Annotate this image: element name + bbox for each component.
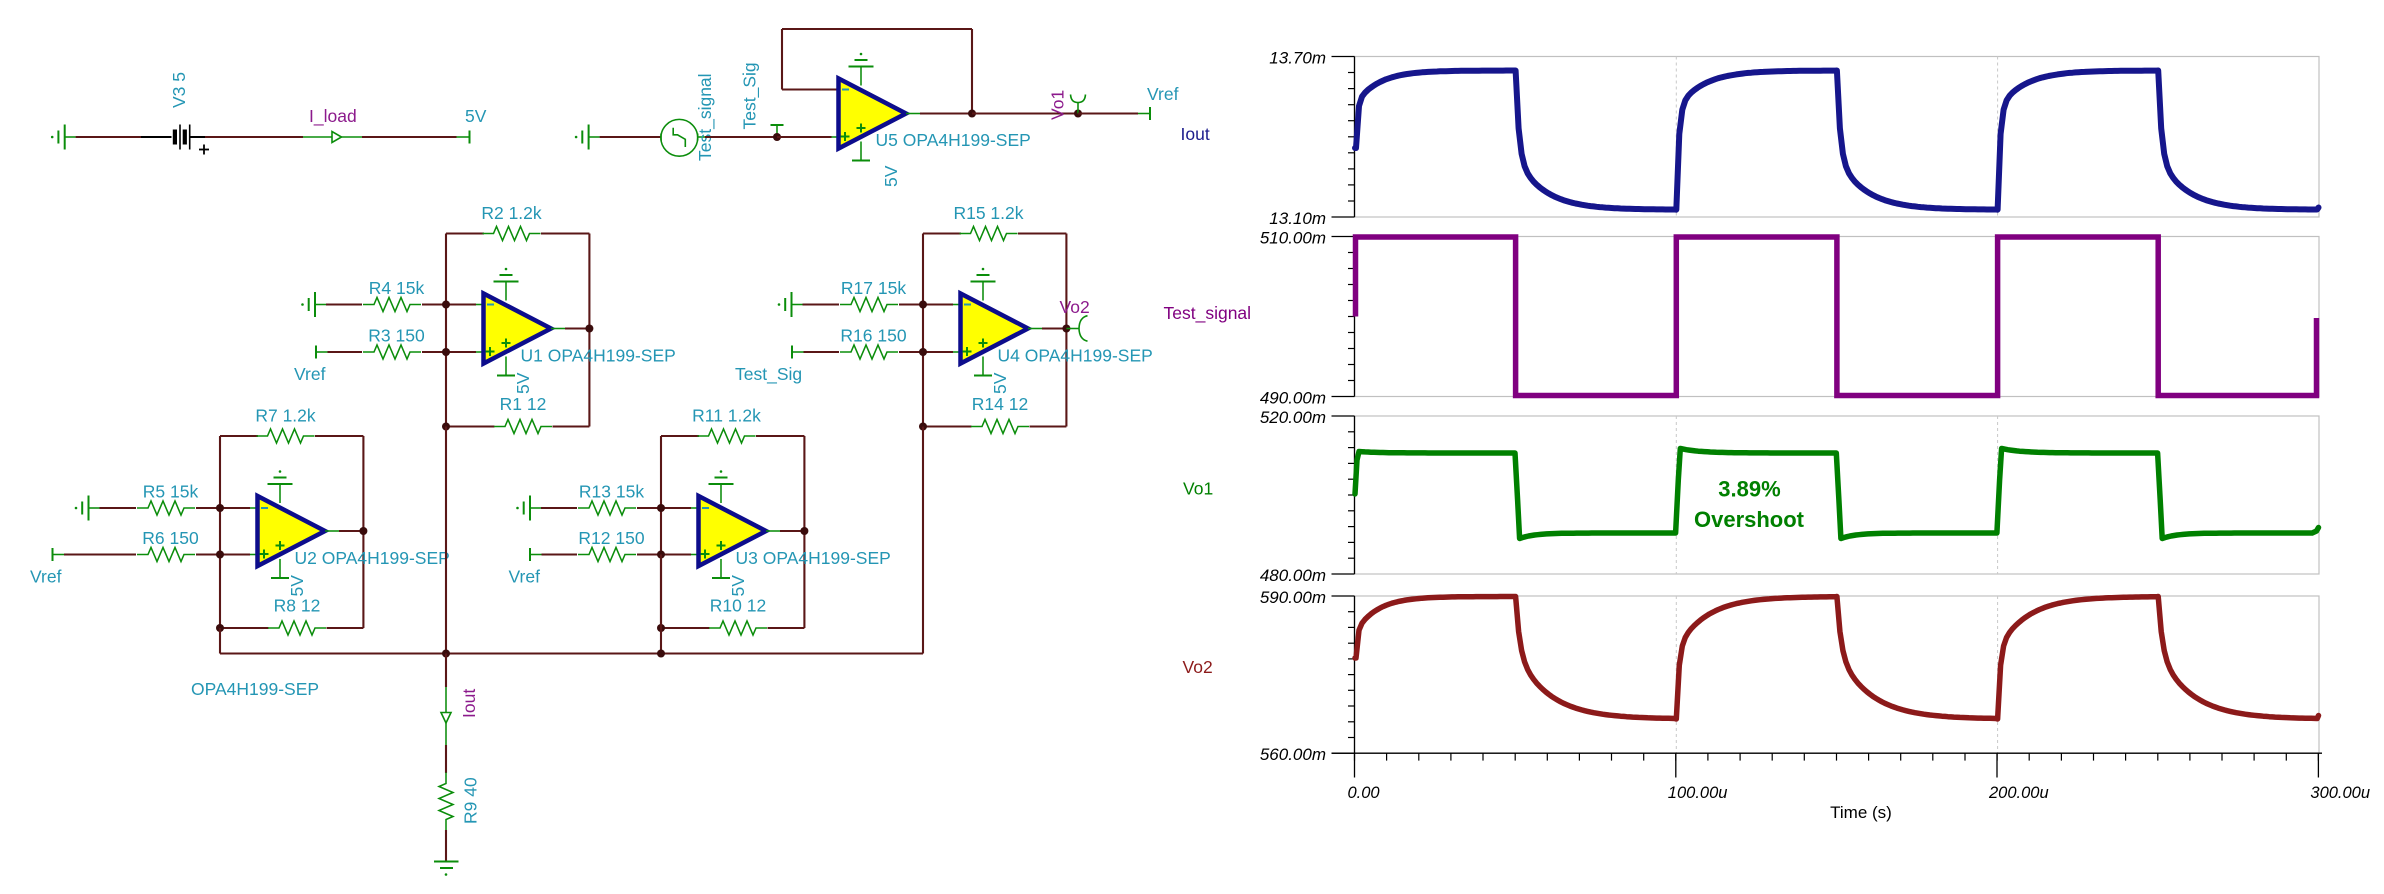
- wire U5 feedback: [782, 29, 972, 114]
- terminal Vref: [53, 548, 65, 561]
- svg-text:Vref: Vref: [509, 567, 541, 587]
- svg-text:5V: 5V: [990, 372, 1010, 394]
- wire U2 column down: [219, 628, 221, 654]
- svg-text:R9 40: R9 40: [461, 777, 481, 824]
- node non-inverting input: [216, 551, 257, 559]
- ground: [301, 292, 326, 317]
- node p3 frame: [1355, 416, 2320, 574]
- svg-text:U3 OPA4H199-SEP: U3 OPA4H199-SEP: [736, 548, 891, 568]
- svg-text:Iout: Iout: [459, 689, 479, 718]
- svg-text:100.00u: 100.00u: [1668, 784, 1728, 802]
- node non-inverting input: [919, 348, 960, 356]
- svg-text:Vref: Vref: [1147, 84, 1179, 104]
- terminal 5V: [457, 106, 487, 144]
- resistor R11: [692, 406, 761, 444]
- power 5V supply: [497, 357, 533, 395]
- svg-text:R6 150: R6 150: [142, 528, 199, 548]
- ground: [434, 862, 459, 876]
- wire output: [906, 113, 972, 115]
- wire U3 feedback loop: [661, 436, 804, 628]
- node x-axis: [1332, 753, 2371, 822]
- ground: [778, 292, 803, 317]
- svg-text:Vo1: Vo1: [1183, 479, 1213, 499]
- node p1 frame: [1355, 57, 2320, 218]
- svg-text:R7 1.2k: R7 1.2k: [255, 406, 316, 426]
- node p2 y-axis: [1260, 229, 1355, 408]
- svg-text:R3 150: R3 150: [368, 326, 425, 346]
- resistor R17: [840, 278, 906, 312]
- wire: [972, 112, 1078, 114]
- svg-text:R12 150: R12 150: [578, 528, 644, 548]
- svg-text:Time (s): Time (s): [1830, 803, 1892, 822]
- wire: [804, 351, 840, 353]
- node output junction: [585, 325, 593, 333]
- svg-text:R1 12: R1 12: [500, 394, 547, 414]
- resistor R3: [363, 326, 425, 360]
- wire: [328, 351, 363, 353]
- node inverting input: [919, 301, 960, 309]
- wire: [326, 303, 362, 305]
- svg-text:Test_Sig: Test_Sig: [740, 62, 761, 129]
- svg-text:U5 OPA4H199-SEP: U5 OPA4H199-SEP: [876, 130, 1031, 150]
- svg-text:13.70m: 13.70m: [1269, 49, 1326, 68]
- battery V3 5: [141, 72, 209, 155]
- ground: [516, 496, 541, 521]
- svg-text:U2 OPA4H199-SEP: U2 OPA4H199-SEP: [295, 548, 450, 568]
- node non-inverting input: [657, 551, 698, 559]
- svg-text:R4 15k: R4 15k: [369, 278, 425, 298]
- svg-text:R10 12: R10 12: [710, 596, 766, 616]
- node curve Iout: [1355, 71, 2319, 210]
- svg-text:R5 15k: R5 15k: [143, 482, 199, 502]
- svg-text:R16 150: R16 150: [840, 326, 906, 346]
- wire U4 feedback loop: [923, 234, 1066, 427]
- power V- ground symbol: [709, 470, 734, 503]
- power 5V supply: [974, 357, 1010, 395]
- svg-text:Vo1: Vo1: [1048, 90, 1068, 120]
- svg-text:I_load: I_load: [309, 106, 357, 127]
- wire: [542, 553, 578, 555]
- svg-text:200.00u: 200.00u: [1988, 784, 2049, 802]
- svg-text:R11 1.2k: R11 1.2k: [692, 406, 761, 426]
- resistor R5: [137, 482, 198, 516]
- wire output: [766, 530, 804, 532]
- node inverting input: [442, 301, 483, 309]
- resistor R2: [481, 203, 542, 241]
- resistor R6: [137, 528, 199, 562]
- resistor R14: [971, 394, 1029, 434]
- wire: [205, 136, 303, 138]
- wire: [637, 507, 661, 509]
- power 5V supply: [271, 559, 307, 597]
- resistor R12: [578, 528, 645, 562]
- wire: [196, 553, 220, 555]
- node Vo1 probe: [1048, 90, 1086, 120]
- svg-text:300.00u: 300.00u: [2310, 784, 2370, 802]
- svg-text:5V: 5V: [728, 575, 748, 597]
- node p4 y-axis: [1260, 588, 1355, 764]
- svg-text:13.10m: 13.10m: [1269, 209, 1326, 228]
- wire: [541, 507, 577, 509]
- node annotation overshoot: [1694, 477, 1805, 533]
- wire: [64, 553, 136, 555]
- node output junction: [800, 527, 808, 535]
- ground: [575, 125, 600, 150]
- node p4 frame: [1355, 596, 2320, 753]
- source Test_signal: [661, 73, 716, 161]
- node non-inverting input: [442, 348, 483, 356]
- svg-text:560.00m: 560.00m: [1260, 745, 1326, 764]
- node output junction: [359, 527, 367, 535]
- resistor R9: [439, 773, 481, 831]
- resistor R8: [268, 596, 326, 636]
- svg-text:R15 1.2k: R15 1.2k: [953, 203, 1023, 223]
- wire: [445, 745, 447, 773]
- op-amp U2: [258, 496, 450, 568]
- svg-text:V3 5: V3 5: [169, 72, 189, 108]
- wire: [362, 136, 457, 138]
- wire: [899, 351, 923, 353]
- svg-text:Vref: Vref: [30, 567, 62, 587]
- svg-text:0.00: 0.00: [1348, 784, 1381, 802]
- svg-text:490.00m: 490.00m: [1260, 389, 1326, 408]
- svg-text:480.00m: 480.00m: [1260, 566, 1326, 585]
- svg-text:R13 15k: R13 15k: [579, 482, 644, 502]
- wire output: [325, 530, 363, 532]
- svg-text:5V: 5V: [881, 165, 901, 187]
- svg-text:U4 OPA4H199-SEP: U4 OPA4H199-SEP: [998, 346, 1153, 366]
- svg-text:Test_signal: Test_signal: [1164, 303, 1252, 324]
- wire U1 column down: [445, 427, 447, 654]
- ground: [75, 496, 100, 521]
- wire U1 feedback loop: [446, 234, 589, 427]
- node Vo2 probe: [1060, 297, 1090, 341]
- terminal Vref: [1138, 84, 1179, 120]
- node inverting input: [216, 504, 257, 512]
- power V- ground symbol: [268, 470, 293, 503]
- terminal Test_Sig: [792, 346, 804, 359]
- resistor R15: [953, 203, 1023, 241]
- resistor R13: [578, 482, 644, 516]
- node curve Vo2: [1355, 597, 2319, 720]
- svg-text:510.00m: 510.00m: [1260, 229, 1326, 248]
- wire U4 column down: [922, 427, 924, 654]
- op-amp U3: [699, 496, 891, 568]
- node R10 left junction: [657, 624, 665, 632]
- wire: [705, 136, 777, 138]
- power 5V supply: [712, 559, 748, 597]
- op-amp U1: [484, 294, 676, 366]
- node R1 left junction: [442, 423, 450, 431]
- svg-text:590.00m: 590.00m: [1260, 588, 1326, 607]
- wire: [899, 303, 923, 305]
- node p1 y-axis: [1269, 49, 1354, 229]
- power V- ground symbol: [494, 268, 519, 301]
- svg-text:Vo2: Vo2: [1060, 297, 1090, 317]
- node p3 y-axis: [1260, 408, 1355, 585]
- resistor R4: [363, 278, 424, 312]
- terminal Vref: [316, 346, 328, 359]
- svg-text:R8 12: R8 12: [274, 596, 321, 616]
- power V- ground symbol: [849, 53, 874, 86]
- node p2 frame: [1355, 237, 2320, 397]
- wire: [100, 507, 137, 509]
- svg-text:Vref: Vref: [294, 364, 326, 384]
- current arrow I_load: [303, 106, 362, 143]
- svg-text:Vo2: Vo2: [1183, 657, 1213, 677]
- node R14 left junction: [919, 423, 927, 431]
- svg-text:R2 1.2k: R2 1.2k: [481, 203, 542, 223]
- node R8 left junction: [216, 624, 224, 632]
- svg-text:520.00m: 520.00m: [1260, 408, 1326, 427]
- svg-text:R17 15k: R17 15k: [841, 278, 906, 298]
- wire: [196, 507, 220, 509]
- svg-text:Iout: Iout: [1181, 124, 1210, 144]
- wire output: [1028, 328, 1066, 330]
- svg-text:U1 OPA4H199-SEP: U1 OPA4H199-SEP: [521, 346, 676, 366]
- resistor R10: [709, 596, 767, 636]
- resistor R16: [840, 326, 907, 360]
- resistor R7: [255, 406, 316, 444]
- svg-text:R14 12: R14 12: [972, 394, 1028, 414]
- wire: [803, 303, 840, 305]
- current arrow Iout: [441, 687, 479, 745]
- wire output: [551, 328, 589, 330]
- wire: [422, 303, 446, 305]
- wire bottom rail: [220, 652, 923, 654]
- svg-text:5V: 5V: [513, 372, 533, 394]
- op-amp U5: [839, 79, 1031, 151]
- svg-text:Test_signal: Test_signal: [695, 73, 716, 161]
- power 5V supply: [852, 142, 901, 188]
- svg-text:5V: 5V: [465, 106, 487, 126]
- node rail-U1: [442, 650, 450, 658]
- node output junction: [1062, 325, 1070, 333]
- node Test_Sig: [740, 62, 784, 141]
- wire: [1078, 112, 1138, 114]
- wire: [637, 553, 661, 555]
- wire U2 feedback loop: [220, 436, 363, 628]
- wire U3 column down: [660, 555, 662, 654]
- ground: [51, 125, 76, 150]
- wire: [76, 136, 141, 138]
- wire: [445, 654, 447, 688]
- node curve Test_signal: [1356, 237, 2317, 396]
- svg-text:Test_Sig: Test_Sig: [735, 364, 802, 385]
- op-amp U4: [961, 294, 1153, 366]
- node rail-U3: [657, 650, 665, 658]
- node U5 output: [968, 110, 976, 118]
- wire: [445, 830, 447, 862]
- wire: [422, 351, 446, 353]
- terminal Vref: [530, 548, 542, 561]
- resistor R1: [494, 394, 552, 434]
- wire: [777, 136, 832, 138]
- power V- ground symbol: [971, 268, 996, 301]
- svg-text:Overshoot: Overshoot: [1694, 507, 1805, 532]
- node inverting input: [657, 504, 698, 512]
- wire: [600, 136, 661, 138]
- svg-text:3.89%: 3.89%: [1718, 477, 1780, 502]
- svg-text:5V: 5V: [287, 575, 307, 597]
- svg-text:OPA4H199-SEP: OPA4H199-SEP: [191, 679, 319, 699]
- node curve Vo1: [1355, 449, 2319, 539]
